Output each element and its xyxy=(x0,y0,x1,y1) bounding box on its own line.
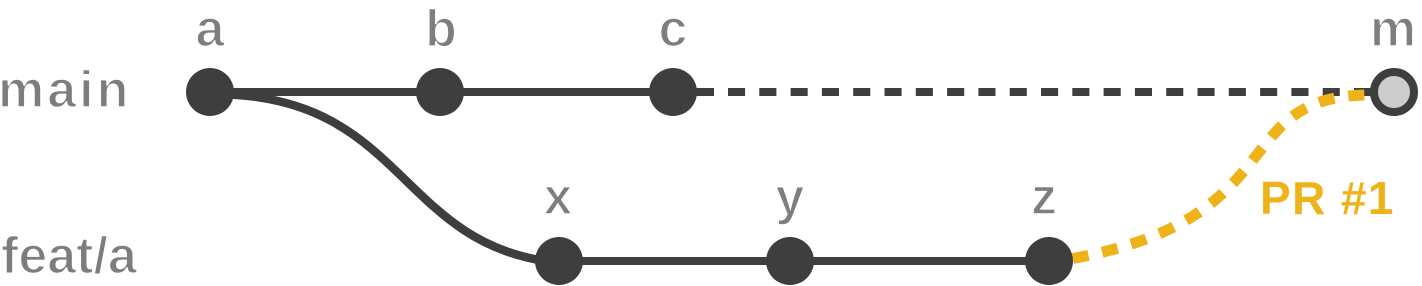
commit m (merge, ring with light fill) xyxy=(1374,72,1414,112)
commit y xyxy=(766,237,814,285)
commit b xyxy=(416,68,464,116)
wire main dashed line c-m xyxy=(728,88,1371,96)
svg-text:z: z xyxy=(1031,168,1057,226)
wire yellow PR dashed curve z to m xyxy=(1058,95,1380,261)
svg-text:y: y xyxy=(776,168,805,226)
svg-text:b: b xyxy=(425,0,457,58)
svg-text:a: a xyxy=(196,0,226,58)
commit a xyxy=(186,68,234,116)
wire branch curve a to x xyxy=(212,94,545,261)
svg-text:m: m xyxy=(1370,0,1416,58)
svg-text:c: c xyxy=(659,0,688,58)
svg-text:main: main xyxy=(0,61,131,119)
commit x xyxy=(535,237,583,285)
commit c xyxy=(649,68,697,116)
wire main solid line a-c xyxy=(210,88,714,96)
wire feat/a solid line x-z xyxy=(540,257,1049,265)
commit z xyxy=(1025,237,1073,285)
svg-text:PR #1: PR #1 xyxy=(1260,172,1395,224)
svg-text:feat/a: feat/a xyxy=(1,227,138,285)
svg-text:x: x xyxy=(544,168,573,226)
